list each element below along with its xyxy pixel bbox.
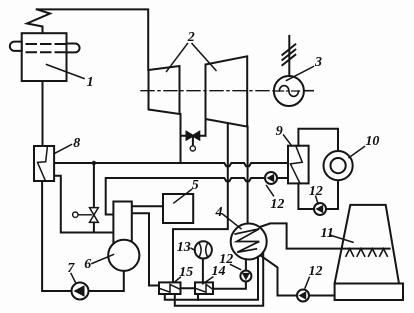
label 11 (331, 235, 354, 242)
label 10 (349, 147, 365, 158)
wire: tower return to heater 4 (260, 255, 297, 295)
wire: HP exhaust drop to extraction header (180, 114, 182, 163)
label 5 (192, 179, 199, 193)
device 13 (regulator) (195, 241, 212, 258)
label 9 (276, 125, 283, 139)
label 15 (179, 266, 193, 280)
label 5 (174, 190, 192, 204)
label 10 (365, 135, 379, 149)
network heater 4 (231, 224, 267, 260)
turbine HP cylinder (2) (149, 66, 180, 114)
label 15 (175, 277, 181, 282)
label 12 (condensate pump) (267, 186, 274, 196)
wire: deaerator to feed pump 7 (42, 181, 124, 291)
label 8 (55, 145, 72, 154)
label 4 (216, 206, 223, 220)
node: junction at valve branch (92, 161, 96, 165)
label 12 (cooling pump) (305, 277, 309, 288)
deaerator tank 6 (108, 240, 139, 271)
wire: main steam line boiler superheater to turbine HP inlet (37, 9, 148, 69)
label 12 (270, 198, 284, 212)
wire: heater 4 to cooling tower supply (spray header) (260, 223, 390, 248)
wire: crossover valve stubs (181, 135, 206, 137)
heater 15 (159, 282, 181, 294)
label 11 (321, 227, 334, 241)
label 12 (309, 185, 323, 199)
wire: outer network return loop (175, 252, 263, 306)
ejector cooler 9 (288, 146, 309, 184)
label 14 (203, 277, 213, 284)
label 8 (73, 137, 80, 151)
wire: heater 14 to pump and heater 4 bottom (213, 282, 246, 289)
wire: heater 4 return to 14/15 bottom (165, 257, 258, 300)
shaft centerline (141, 90, 274, 92)
wire: pump to tower basin (309, 295, 335, 297)
label 3 (287, 67, 314, 81)
label 13 (177, 241, 191, 255)
heater 14 (195, 282, 213, 294)
wire: valve outlet down to deaerator inlet (93, 222, 95, 232)
wire: branch down to reducing valve (93, 163, 95, 208)
label 9 (284, 135, 292, 146)
boiler K (1) with superheater zigzag (10, 9, 80, 81)
wire: 15 to 14 connector (181, 287, 196, 289)
label 12 (219, 253, 233, 267)
box 5 (makeup tank) (163, 194, 193, 223)
generator G (3) (274, 36, 304, 106)
wire: LP extraction 1 drop (to heater 15 loop) (173, 123, 228, 282)
cooling tower 11 (260, 205, 403, 300)
label 3 (315, 56, 322, 70)
label 13 (191, 248, 195, 250)
fan 10 (324, 151, 353, 180)
label 12 (309, 265, 323, 279)
wire: LP exhaust drop to heater 4 (247, 127, 249, 224)
pump 12 (circulation 9-10) (314, 203, 326, 215)
label 7 (67, 262, 74, 276)
label 12 (network pump) (231, 265, 241, 270)
wire: 9 top to fan 10 (298, 129, 338, 151)
wire: 9 bottom loop via pump to 10 (298, 180, 338, 209)
label 14 (212, 265, 226, 279)
label 2 (188, 31, 195, 45)
wire: 14 bottom stub (197, 294, 199, 300)
wire: deaerator to box 5 (132, 205, 163, 207)
label 12 (pump 9-10) (316, 196, 318, 204)
label 7 (71, 274, 76, 284)
deaerator column 6 (113, 202, 131, 243)
wire: LP inlet drop (205, 119, 207, 136)
label 2 (167, 44, 217, 72)
label 1 (47, 65, 85, 79)
wire: deaerator makeup to heater 15 (132, 213, 159, 285)
wire: pump to heater 4 bottom (245, 259, 247, 270)
pump 7 (feed pump) (72, 283, 89, 300)
pump 12 (cooling water) (297, 290, 309, 302)
label 4 (223, 214, 242, 229)
valve reducing (to deaerator) (73, 208, 99, 223)
heater 8 (HP heater) (34, 146, 54, 181)
wire: 13 to heater 14 (202, 259, 204, 283)
pump 12 (condensate) (265, 172, 277, 184)
wire: extraction steam header (upper) with hops (54, 163, 287, 166)
label 6 (84, 258, 91, 272)
valve crossover (filled) (187, 132, 200, 151)
label 1 (87, 76, 94, 90)
wire: boiler downcomer to heater 8 (42, 81, 44, 146)
wire: heater 8 drain to deaerator (54, 176, 113, 233)
pump 12 (network, down) (240, 271, 251, 282)
wire: main condensate line (lower) with hops to deaerator (106, 178, 288, 215)
label 6 (92, 255, 114, 264)
turbine LP cylinder (2) (206, 56, 248, 126)
